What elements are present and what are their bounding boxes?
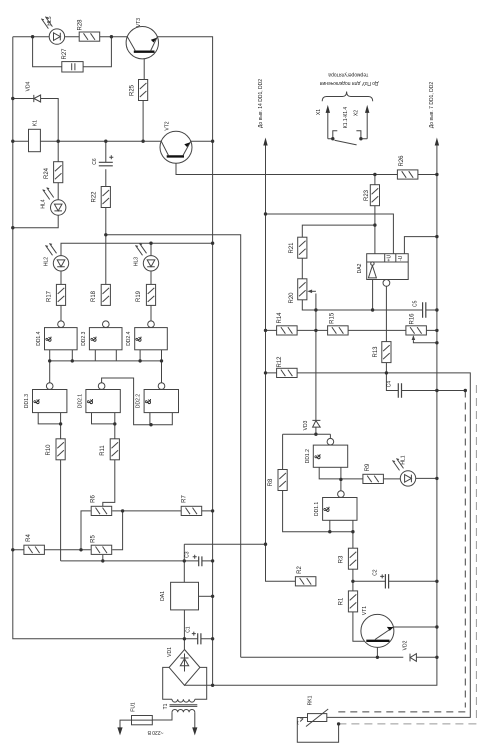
svg-text:DD1.3: DD1.3 — [24, 394, 30, 408]
resistor R13 — [382, 342, 391, 363]
svg-text:HL2: HL2 — [44, 257, 50, 266]
capacitor C4 — [398, 383, 401, 397]
svg-text:-U: -U — [398, 255, 404, 261]
svg-text:&: & — [45, 336, 54, 342]
resistor R18 — [101, 284, 110, 305]
wire K1 row y=141.2 — [13, 140, 213, 142]
diode VD4 — [34, 95, 41, 102]
wire R9 to HL1 to rail — [384, 477, 437, 480]
svg-text:R2: R2 — [297, 566, 303, 574]
transformer T1 — [172, 699, 195, 702]
svg-text:HL3: HL3 — [134, 257, 140, 266]
svg-text:X1: X1 — [316, 109, 322, 115]
svg-text:C4: C4 — [387, 381, 393, 388]
svg-text:R24: R24 — [44, 167, 50, 179]
svg-text:C3: C3 — [185, 551, 191, 558]
gate DD2.3 — [89, 328, 122, 350]
svg-text:HL4: HL4 — [41, 199, 47, 208]
capacitor C1 — [198, 633, 201, 644]
LED HL2 — [53, 256, 68, 271]
svg-text:R9: R9 — [365, 463, 371, 471]
bridge rectifier VD1 — [169, 650, 200, 686]
terminal arrow to pin 14 DD1 DD2 — [265, 144, 267, 215]
svg-text:R21: R21 — [289, 242, 295, 254]
resistor R27 — [62, 62, 83, 72]
svg-text:R10: R10 — [46, 444, 52, 456]
svg-text:R4: R4 — [26, 534, 32, 542]
svg-text:DA2: DA2 — [357, 263, 363, 273]
bridge AC side leads — [163, 667, 207, 699]
LED HL3 — [143, 256, 158, 271]
wire R26 row y=174.5 — [375, 174, 437, 176]
svg-text:R25: R25 — [129, 84, 135, 96]
svg-text:VT3: VT3 — [136, 18, 142, 27]
wire R16 wiper — [413, 340, 437, 343]
svg-text:R28: R28 — [78, 19, 84, 31]
svg-text:C2: C2 — [373, 569, 379, 576]
resistor R19 — [146, 284, 155, 305]
transistor VT1 — [361, 614, 394, 647]
svg-text:R13: R13 — [373, 346, 379, 358]
svg-text:+U: +U — [387, 255, 393, 262]
wire dashed cable line 2 (grey) — [339, 385, 477, 724]
wire C4 branch y=390.5 — [386, 373, 465, 391]
wire DA2 -U feed — [404, 237, 437, 254]
relay contact K1.1-K1.4 with X1 X2 terminals — [328, 131, 367, 139]
brace — [322, 92, 373, 102]
wire top row to VT3 collector — [13, 36, 128, 38]
svg-text:HL5: HL5 — [47, 16, 53, 25]
svg-text:терморегулятора: терморегулятора — [328, 71, 368, 77]
svg-text:DD1.2: DD1.2 — [305, 449, 311, 463]
wire VT3 emitter to common rail x=212.6 — [157, 37, 212, 686]
svg-text:DD2.2: DD2.2 — [136, 394, 142, 408]
svg-text:~220 В: ~220 В — [147, 729, 164, 735]
svg-text:DD2.4: DD2.4 — [126, 331, 132, 345]
svg-text:R23: R23 — [364, 189, 370, 201]
resistor R21 — [298, 237, 307, 258]
wire VD3 column x=315.9 — [315, 310, 317, 434]
svg-text:До ПзУ для подключения: До ПзУ для подключения — [319, 80, 378, 86]
gate DD1.2 — [313, 445, 347, 467]
svg-text:VT2: VT2 — [165, 121, 171, 130]
svg-text:&: & — [89, 336, 98, 342]
LED HL1 — [400, 471, 415, 486]
resistor R3 — [348, 548, 357, 569]
wire +9V line y=560.9 with C3 — [61, 560, 213, 562]
op-amp DA2 — [367, 254, 409, 280]
resistor R8 — [278, 470, 287, 491]
wire +9V node to rail x=265 and DA1 top — [184, 544, 265, 582]
svg-text:&: & — [135, 336, 144, 342]
wire R23 column — [374, 175, 376, 254]
RK1 left lead loop — [297, 718, 338, 743]
wire rail x=265.5 pin14 supply — [266, 144, 296, 582]
svg-text:&: & — [86, 398, 95, 404]
wire R5/R6 left parallel link — [81, 511, 91, 550]
resistor R25 — [139, 80, 148, 101]
wire R4 R5 row y=549.8 — [13, 511, 123, 550]
svg-text:DD2.3: DD2.3 — [81, 331, 87, 345]
terminal arrow to pin 7 DD1 DD2 — [435, 138, 439, 146]
thermistor RK1 — [308, 714, 327, 722]
wire left rail — [13, 37, 185, 639]
resistor R16 (trimmer) — [406, 326, 427, 335]
svg-text:R17: R17 — [47, 290, 53, 302]
resistor R1 — [348, 591, 357, 612]
transistor VT2 — [160, 131, 192, 163]
svg-text:RK1: RK1 — [308, 695, 314, 705]
svg-text:R26: R26 — [399, 155, 405, 167]
wire HL2/R17 column — [60, 271, 62, 321]
capacitor C5 — [423, 302, 426, 318]
resistor R6 — [91, 506, 112, 515]
wire DA2 output through R13 — [385, 286, 387, 373]
wire DA1 bottom to bridge top — [183, 610, 185, 650]
svg-text:VD1: VD1 — [167, 647, 173, 657]
svg-text:К1.1-К1.4: К1.1-К1.4 — [343, 107, 349, 129]
svg-text:VD3: VD3 — [303, 420, 309, 430]
capacitor C3 — [199, 556, 202, 566]
wire VT3 base to R25 to VT2 node — [143, 53, 144, 141]
wire bridge minus row y=685.3 up to VD2 node — [184, 657, 437, 685]
svg-text:R19: R19 — [136, 290, 142, 302]
wire gate row1 input pins and bus y=360.9 — [50, 350, 162, 361]
svg-text:R12: R12 — [277, 356, 283, 368]
gate DD2.2 — [144, 390, 178, 413]
resistor R10 — [56, 439, 65, 460]
capacitor C6 — [99, 162, 113, 166]
wire DD2.1 inputs to R11 and R6 tap — [92, 413, 115, 507]
svg-text:DD1.4: DD1.4 — [36, 331, 42, 345]
svg-text:C6: C6 — [92, 158, 98, 165]
svg-text:&: & — [323, 506, 332, 512]
wire VT1 emitter to rail — [393, 626, 437, 628]
svg-text:R1: R1 — [339, 597, 345, 605]
resistor R5 — [91, 545, 112, 554]
wire C1 row y=638.8 — [184, 638, 212, 640]
svg-text:R15: R15 — [330, 312, 336, 324]
transistor VT3 — [126, 27, 158, 59]
svg-text:&: & — [33, 398, 42, 404]
svg-text:C5: C5 — [413, 300, 419, 307]
svg-text:R11: R11 — [100, 445, 106, 456]
svg-text:R18: R18 — [91, 290, 97, 302]
svg-text:R5: R5 — [91, 535, 97, 543]
resistor R11 — [110, 439, 119, 460]
wire row y=330.4 R14 R15 R16 — [266, 329, 437, 331]
resistor R26 — [397, 170, 418, 179]
svg-text:X2: X2 — [354, 110, 360, 116]
svg-text:&: & — [144, 398, 153, 404]
wire DA2 +U feed y=214 — [266, 214, 394, 254]
resistor R12 — [277, 368, 298, 377]
gate DD2.1 — [86, 390, 120, 413]
svg-text:&: & — [313, 454, 322, 460]
wire R20 bottom and wiper to line y=310 — [302, 294, 316, 311]
wire VT2 base line y=174.5 — [176, 158, 375, 175]
wire C6/R22 node to mid rail x=240.7 down to bottom rail — [106, 235, 241, 658]
svg-text:R8: R8 — [268, 478, 274, 486]
wire node R3/C2/R1/R2 — [353, 569, 437, 591]
LED HL4 — [51, 200, 66, 215]
svg-text:T1: T1 — [163, 703, 169, 709]
LED HL5 — [49, 29, 64, 44]
resistor R24 — [54, 162, 63, 183]
gate DD2.4 — [135, 328, 168, 350]
wire DD2.2 output to bus — [161, 361, 163, 383]
svg-text:R22: R22 — [92, 191, 98, 203]
wire line y=310 to C5 and rail — [316, 280, 437, 311]
svg-text:R16: R16 — [410, 313, 416, 325]
regulator DA1 — [171, 582, 199, 610]
svg-text:VD2: VD2 — [402, 640, 408, 650]
wire C6 R22 column — [105, 141, 107, 284]
resistor R2 — [295, 577, 316, 586]
wire R8 bottom to DD1.1 inputs and R3 — [283, 491, 353, 549]
wire dashed cable line 1 — [334, 391, 466, 712]
wire VD3 node to R8 top and DD1.2 output — [283, 434, 331, 469]
svg-text:R7: R7 — [182, 495, 188, 503]
resistor R17 — [56, 284, 65, 305]
svg-text:R6: R6 — [91, 495, 97, 503]
T1 primary leads — [152, 712, 195, 728]
svg-text:VD4: VD4 — [25, 81, 31, 91]
svg-text:До выв. 7 DD1, DD2: До выв. 7 DD1, DD2 — [429, 82, 435, 128]
wire R24 HL4 branch — [13, 141, 58, 228]
relay coil K1 — [29, 129, 41, 151]
wire R6 R7 row y=510.9 — [112, 510, 212, 512]
gate DD1.1 — [323, 498, 357, 521]
resistor R7 — [181, 506, 202, 515]
svg-text:C1: C1 — [186, 626, 192, 633]
wire DD1.3 inputs to R10 — [38, 413, 60, 561]
wire VT1 collector — [376, 642, 378, 657]
capacitor C2 — [385, 574, 388, 588]
wire DA1 right pin — [199, 595, 213, 597]
wire DD2.1 output to DD2.2 inputs — [102, 378, 173, 425]
fuse FU1 — [132, 716, 153, 725]
svg-text:FU1: FU1 — [131, 702, 137, 712]
svg-text:K1: K1 — [33, 120, 39, 126]
diode VD3 — [312, 420, 320, 427]
wire DD1.2 inputs to DD1.1 output and R9 — [319, 467, 363, 491]
gate DD1.3 — [33, 390, 67, 413]
resistor R15 — [328, 326, 349, 335]
resistor R23 — [370, 185, 379, 206]
wire R21 to R20 — [301, 258, 303, 279]
wire R21 top to node y=225.1 — [302, 225, 375, 237]
svg-text:До выв. 14 DD1, DD2: До выв. 14 DD1, DD2 — [258, 79, 264, 128]
resistor R4 — [24, 545, 45, 554]
resistor R28 — [79, 32, 100, 41]
svg-text:DD2.1: DD2.1 — [77, 394, 83, 408]
resistor R22 — [101, 187, 110, 208]
wire R27 parallel loop — [33, 37, 112, 67]
resistor R14 — [277, 326, 298, 335]
svg-text:R14: R14 — [277, 312, 283, 324]
wire row y=372.9 R12 to RK1 — [266, 373, 471, 718]
resistor R9 — [363, 474, 384, 483]
gate DD1.4 — [45, 328, 78, 350]
wire LED rail y=243.2 — [61, 243, 213, 255]
wire bottom rail y=657.3 with VD2 — [241, 656, 437, 658]
resistor R20 (trimmer) — [298, 279, 307, 300]
svg-text:DA1: DA1 — [160, 591, 166, 601]
wire VD4 branch — [13, 99, 58, 142]
svg-text:HL1: HL1 — [401, 455, 407, 464]
wire R1 bottom to VT1 base — [353, 612, 366, 641]
svg-text:R3: R3 — [339, 555, 345, 563]
svg-text:R27: R27 — [62, 48, 68, 60]
svg-text:DD1.1: DD1.1 — [314, 502, 320, 516]
wire R5 bottom tap — [102, 555, 104, 561]
wire rail x=436.9 — [436, 144, 438, 658]
wire DD1.3 output to bus — [49, 361, 51, 383]
svg-text:VT1: VT1 — [362, 606, 368, 615]
diode VD2 — [410, 654, 416, 662]
svg-text:R20: R20 — [289, 292, 295, 304]
wire HL3/R19 column — [150, 271, 152, 321]
